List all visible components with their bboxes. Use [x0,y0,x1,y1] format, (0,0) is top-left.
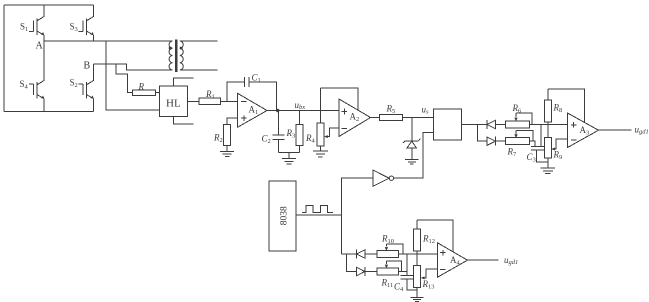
A3 feedback wire [548,89,585,122]
svg-text:S1: S1 [20,22,28,34]
transistor S4 [29,41,44,112]
wire R11 lead to node [399,271,407,273]
H-bridge rails [4,5,94,111]
svg-text:C1: C1 [252,73,261,85]
resistor R5 [379,115,402,121]
wire A-branch down to HL [106,41,160,110]
potentiometer R11 [377,261,402,275]
ground rail C2 R3 [279,152,300,164]
svg-text:A1: A1 [249,105,259,117]
A4 feedback wire [417,220,453,251]
svg-text:HL: HL [166,98,181,110]
wire B-branch step to R [116,64,133,93]
svg-text:R3: R3 [286,128,296,140]
transistor S2 [79,64,94,111]
svg-text:8038: 8038 [280,206,290,225]
ground under R4 [313,146,328,157]
ground under R9 C3 [541,162,556,174]
wire branch1 to diode D3 [342,253,357,255]
svg-text:R1: R1 [205,89,215,101]
zener diode VZ branch [403,118,421,160]
resistor R1 [199,98,221,104]
wire A2 output to R5 [371,117,380,119]
wire HL to R1 [187,101,199,103]
capacitor C4 [401,276,418,291]
transformer T primary coil [169,41,172,70]
transformer polarity dots [169,47,172,50]
op-amp A4 [438,243,468,277]
diode D3 [357,250,378,259]
svg-text:C3: C3 [527,152,536,164]
svg-text:R5: R5 [386,104,396,116]
svg-text:R8: R8 [553,103,563,115]
A2 feedback wire [320,88,358,110]
diode D2 [477,137,505,146]
capacitor C1 feedback branch [227,77,276,111]
op-amp A2 [339,99,371,137]
svg-text:R9: R9 [553,150,563,162]
svg-text:S3: S3 [70,22,78,34]
potentiometer R6 [506,113,532,128]
capacitor C3 [531,147,548,163]
wire R7 lead to C3 [529,141,535,146]
wire R to HL [155,92,159,94]
wire R5 to box [403,117,434,119]
ground under R13 C4 [411,290,424,301]
wire node down to C4 [406,254,408,276]
capacitor C2 branch [272,111,284,153]
svg-text:R6: R6 [512,103,523,115]
ground under zener [405,159,419,164]
svg-text:ugd1: ugd1 [635,124,649,135]
HL bottom pin stub [173,116,193,124]
wire A1 output line [267,110,339,112]
wire secondary leads [180,41,218,70]
op-amp A3 [568,113,599,148]
resistor R12 [414,220,421,254]
resistor R [132,90,155,96]
HL top pin stub [173,78,193,86]
svg-text:C4: C4 [394,282,404,294]
svg-text:A: A [36,41,44,52]
potentiometer R13 [414,254,421,290]
potentiometer R9 [544,125,551,163]
wire node A to transformer [44,40,173,42]
wire A1 non-inverting input to R2 [227,118,238,125]
wire node down to C3 [540,125,542,147]
svg-text:R: R [138,81,145,91]
svg-text:ugd1: ugd1 [504,255,518,266]
IC 8038 box [269,181,296,251]
transistor S1 [29,5,44,41]
junction dot at A1 output [276,109,279,112]
svg-text:R10: R10 [381,234,394,246]
svg-text:A4: A4 [450,255,461,267]
svg-text:S2: S2 [70,77,78,89]
transformer secondary coil [180,41,183,70]
wire node B to transformer [94,64,173,70]
HL sensor box [160,86,188,116]
wire branch1 to A4 [399,253,438,255]
R13 wiper arrow to A4 inverting input [421,269,438,280]
transistor S3 [79,5,94,41]
resistor R3 branch [296,111,303,153]
resistor R2 [224,125,231,146]
svg-text:R11: R11 [381,278,394,290]
R4 wiper arrow to A2 inverting input [324,128,339,138]
wire NOT gate output to box [394,133,434,179]
transformer core [175,40,177,73]
diode D1 [477,120,505,129]
svg-text:R12: R12 [422,234,435,246]
wire R1 to A1 inverting input [221,101,238,103]
wire to NOT gate and diodes [342,178,374,254]
diode D4 [357,267,378,276]
NOT gate U2 [373,170,394,186]
wire A3 output [599,129,632,131]
wire 8038 output [296,214,342,216]
svg-text:A3: A3 [580,125,590,137]
potentiometer R7 [506,131,533,145]
wire main line to A3 [529,124,567,126]
potentiometer R10 [377,244,403,258]
svg-text:R7: R7 [507,147,518,159]
svg-text:R2: R2 [213,132,223,144]
wire branch2 split [346,254,356,272]
wire A4 output [468,259,499,261]
svg-text:S4: S4 [20,79,29,91]
svg-text:us: us [422,104,430,115]
ground under R2 [220,146,234,157]
potentiometer R4 branch [317,88,324,146]
svg-text:R13: R13 [422,279,435,291]
R9 wiper arrow to A3 inverting input [551,139,567,151]
svg-text:A2: A2 [350,112,360,124]
multiplier box U [434,109,462,140]
square wave symbol [302,206,333,213]
svg-text:ubx: ubx [295,100,306,111]
svg-text:B: B [84,61,91,72]
wire box output [461,124,487,126]
op-amp A1 [238,93,268,127]
wire branch split down [477,125,487,142]
resistor R8 [544,89,551,125]
svg-text:C2: C2 [262,134,271,146]
svg-text:R4: R4 [305,133,316,145]
